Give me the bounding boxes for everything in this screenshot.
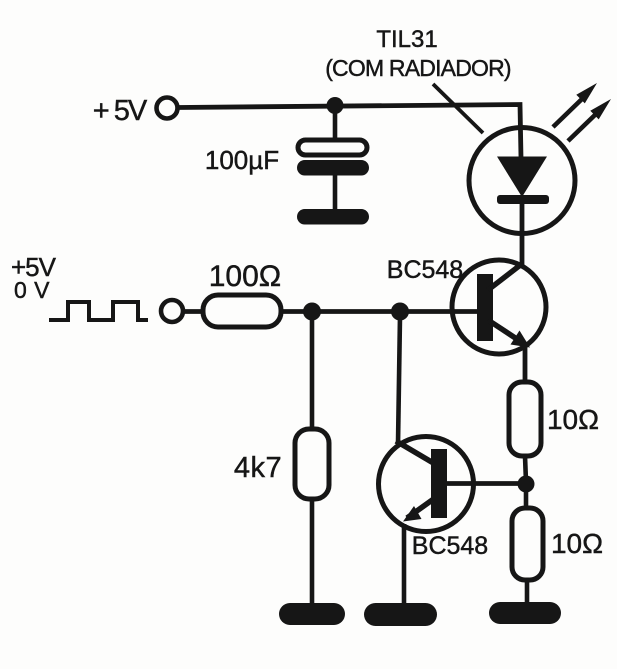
capacitor C1 100uF (positive plate, outlined) (298, 140, 367, 155)
wire Q1 emitter to R3 (523, 346, 528, 384)
svg-text:4k7: 4k7 (234, 452, 282, 484)
transistor Q1 collector stroke (488, 263, 523, 290)
label 0V (input low level) (14, 277, 50, 303)
LED D1 anode triangle (497, 157, 547, 198)
junction node A (+5V rail / capacitor tap) (327, 97, 344, 114)
ground (below R4) (489, 602, 561, 624)
ground (below capacitor) (297, 209, 369, 225)
transistor Q2 BC548 (envelope circle) (379, 437, 474, 532)
wire LED cathode to Q1 collector (520, 203, 525, 266)
wire node A to capacitor (333, 110, 338, 142)
resistor R1 100Ω (203, 295, 281, 327)
svg-text:+ 5V: + 5V (93, 95, 148, 127)
svg-text:BC548: BC548 (412, 532, 488, 560)
resistor R2 4k7 (295, 429, 329, 499)
label TIL31 (376, 26, 437, 53)
wire +5V rail (horizontal top rail, corner down into LED) (178, 105, 521, 159)
junction node C (base line / Q2 collector tap) (391, 303, 409, 321)
svg-text:10Ω: 10Ω (551, 528, 603, 559)
svg-text:BC548: BC548 (387, 256, 463, 284)
label BC548 (Q1) (387, 256, 463, 284)
square wave input symbol (49, 302, 148, 320)
label 4k7 (234, 452, 282, 484)
wire input/base line (terminal to Q1 base) (182, 309, 478, 314)
label 10Ω (R3) (547, 404, 599, 435)
transistor Q1 BC548 (envelope circle) (452, 260, 546, 354)
svg-text:TIL31: TIL31 (376, 26, 437, 53)
wire R4 to ground (525, 580, 530, 606)
svg-text:100Ω: 100Ω (209, 260, 281, 293)
junction node B (base line / R2 tap) (303, 303, 321, 321)
svg-text:0 V: 0 V (14, 277, 50, 303)
svg-text:10Ω: 10Ω (547, 404, 599, 435)
label +5V (top supply) (93, 95, 148, 127)
input terminal (open circle) (161, 300, 183, 322)
svg-text:100µF: 100µF (205, 145, 279, 175)
transistor Q1 emitter stroke with arrow (488, 320, 530, 348)
label 100µF (205, 145, 279, 175)
junction node D (R3/R4/Q2 base) (518, 476, 535, 493)
resistor R3 10Ω (509, 382, 541, 456)
LED D1 cathode bar (497, 195, 549, 204)
label (COM RADIADOR) (325, 55, 511, 81)
label 10Ω (R4) (551, 528, 603, 559)
capacitor C1 100uF (negative plate, filled) (297, 160, 369, 176)
wire R2 to ground (310, 499, 315, 606)
wire node D to R4 (524, 488, 529, 510)
transistor Q2 base bar (431, 449, 447, 518)
svg-text:(COM RADIADOR): (COM RADIADOR) (325, 55, 511, 81)
label +5V (input high level) (11, 252, 57, 282)
transistor Q2 collector stroke (396, 441, 435, 464)
wire node B to R2 (310, 316, 315, 431)
terminal +5V (open circle) (157, 98, 178, 119)
light emission arrow 1 (553, 83, 597, 127)
ground (below R2) (279, 603, 345, 625)
label 100Ω (209, 260, 281, 293)
wire node C to Q2 collector (398, 316, 400, 444)
label BC548 (Q2) (412, 532, 488, 560)
pointer line from label to LED D1 (433, 84, 483, 133)
light emission arrow 2 (568, 99, 611, 141)
wire capacitor to ground (333, 175, 338, 211)
transistor Q1 base bar (477, 274, 493, 341)
ground (below Q2) (364, 603, 437, 626)
wire Q2 emitter to ground (402, 524, 407, 605)
wire R3 to node D (525, 456, 526, 482)
resistor R4 10Ω (512, 508, 543, 580)
LED D1 TIL31 (envelope circle) (469, 128, 575, 234)
wire Q2 base to node D (447, 481, 522, 486)
transistor Q2 emitter stroke with arrow (403, 498, 435, 522)
